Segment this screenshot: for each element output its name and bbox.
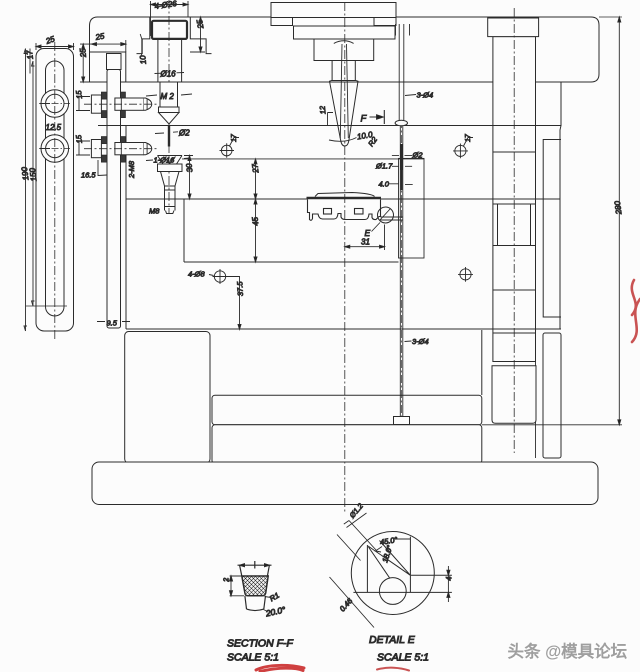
section FF left depth dim [230,576,244,596]
svg-text:150: 150 [28,167,39,182]
red swoosh bottom left [256,665,304,671]
detail E circle [378,207,394,223]
latch clamp 1 upper flange [101,92,125,99]
section FF top dim edge [238,564,272,566]
detail E d1.2 dim line [344,513,367,528]
dim 12 sprue tip [328,113,334,127]
return pin ball [395,120,407,126]
screw position crosshair 4 [460,269,471,280]
runner puller collar [158,164,183,172]
screw position crosshair 3 [214,271,225,282]
latch pin 1 centerline [84,103,159,105]
svg-text:45: 45 [250,216,260,226]
latch pin 1 band [120,98,122,110]
latch pin 2 band [120,143,122,155]
cavity plate line y199 [126,198,560,200]
guide bush hole 2 inner [46,139,64,157]
bar head split line [107,69,121,71]
pillar guide bush [492,366,536,424]
molded part top thick line [307,197,382,200]
latch dim 15 lower [76,141,90,155]
sprue spherical seat arc [334,41,354,44]
svg-text:头条 @模具论坛: 头条 @模具论坛 [508,641,628,661]
runner puller thread lines [165,190,176,207]
dim 37.5 leader and line [226,277,240,330]
svg-text:17: 17 [231,133,238,142]
pillar centerline [513,8,515,453]
svg-text:Ø2: Ø2 [412,151,424,160]
screw position crosshair 2 [455,145,466,156]
pillar bush chamfer band [493,361,536,363]
locating ring left foot [271,18,293,26]
M12 screw body [160,82,178,107]
left plate dim 12.5 [40,104,50,149]
svg-text:25: 25 [78,47,88,58]
svg-text:17: 17 [465,133,472,142]
molded part window 1 [324,209,332,215]
upper ejector retainer plate [212,395,482,425]
crosshair 2 flag [464,138,474,147]
crosshair 1 flag [230,138,240,147]
guide bush horizontal centerlines [39,104,70,149]
svg-text:12.5: 12.5 [46,123,62,132]
svg-text:12: 12 [318,105,328,115]
section FF 20 deg label [264,610,268,612]
sprue cone outer left [330,80,341,139]
red marks bottom center [377,668,409,671]
detail E 0.46 dim diagonal [330,577,375,628]
latch clamp 1 left block [91,95,101,113]
ejector pin T foot [394,417,410,425]
return pin counterbore [396,24,410,36]
ejector pin guide box [399,158,425,258]
guide bush hole 1 inner [46,94,64,112]
section FF top center tick [254,561,256,569]
sprue tip [341,140,350,147]
svg-text:17: 17 [25,49,35,59]
B plate bottom line [126,328,561,330]
cavity pocket floor line [184,261,399,263]
svg-text:10: 10 [138,54,148,64]
svg-text:4: 4 [444,576,453,581]
bottom clamp plate [92,462,598,505]
sprue bushing flange [294,26,396,39]
section FF R1 label [265,597,272,598]
bar bottom width label 9.5 [97,321,130,323]
detail E vertical line right [409,537,411,593]
dim 280 line [618,17,620,425]
cavity pocket left wall [183,199,185,262]
latch lock plate outline [36,49,74,332]
latch lock plate slot [46,61,65,316]
svg-text:M 2: M 2 [161,92,175,101]
dim 25 bolt head right arrows [199,17,202,52]
runner stripper plate [126,82,561,126]
dim 27-45 arrows [254,159,257,262]
M12 screw cone tip [159,113,180,125]
detail E pin taper lines [368,541,410,579]
screw position crosshair 1 [221,145,232,156]
svg-text:9.5: 9.5 [107,319,118,328]
latch clamp 2 left block [91,140,101,158]
svg-text:4-Ø8: 4-Ø8 [188,270,206,279]
latch pin 1 tip band [146,99,148,110]
core plate B [126,199,560,329]
right narrow strip edge [543,140,561,318]
svg-text:3-Ø4: 3-Ø4 [412,337,429,346]
dim 37.5 arrow [238,324,241,329]
svg-text:1-Ø16: 1-Ø16 [154,156,176,165]
ejector plate split extension line [482,424,622,426]
section FF lower walls [245,596,266,609]
dim 25 top pocket line [92,40,126,52]
locating ring body [271,3,396,18]
latch pin 2 body [115,143,144,155]
pillar inset ring [498,204,531,246]
detail E ext lines to d1.2 [337,521,377,561]
M12 screw collar [159,107,180,113]
svg-text:M8: M8 [149,207,160,216]
bolt centerline [168,0,170,213]
latch clamp 2 upper flange [101,137,125,144]
svg-text:SCALE 5:1: SCALE 5:1 [377,652,429,664]
svg-text:SCALE 5:1: SCALE 5:1 [227,652,279,664]
dim 27-45 line [182,159,424,262]
latch clamp 1 lower flange [101,111,125,118]
center ejector pin centerline [401,120,403,420]
latch clamp 2 lower flange [101,155,125,162]
detail E big circle [351,532,434,615]
svg-text:280: 280 [613,200,624,216]
svg-text:30: 30 [184,162,194,172]
sprue inner channel [340,44,348,138]
latch pin 2 tip band [146,143,148,154]
svg-text:Ø16: Ø16 [160,70,177,79]
gate bar [381,217,404,220]
svg-text:37.5: 37.5 [235,280,245,296]
dim 280 arrows [618,17,621,425]
latch pin 2 bullet tip [144,143,152,155]
right edge extension line y=17 [599,16,622,18]
section FF hatched seal section [242,576,268,596]
ejector pocket right edge [481,330,483,395]
guide bush hole 2 outer [41,135,69,163]
pillar band lines [493,126,536,334]
detail E upper right line [411,574,452,576]
sprue cone outer right [349,80,358,139]
svg-text:SECTION F-F: SECTION F-F [227,638,293,650]
svg-text:27: 27 [250,163,260,174]
dim 31 arrows [345,245,385,248]
shoulder bolt shaft [158,39,182,82]
dim 25 left vertical arrows [82,44,85,82]
guide pillar shaft [493,37,536,362]
top clamp plate counterbore pocket right [190,17,211,54]
center ejector pin thick gate section [400,144,403,170]
dia2 gate pin [168,126,170,147]
svg-text:2-M8: 2-M8 [127,160,136,179]
left plate dim 190 [24,49,27,332]
detail E horizontal base line [353,591,452,593]
mold centerline [344,2,346,513]
right spacer rail [543,333,561,458]
runner puller tip [166,211,175,214]
detail E circle gate slant [380,209,391,221]
svg-text:2: 2 [223,577,230,583]
left spacer block [125,332,210,464]
cavity plate A [126,126,561,200]
detail E small circle [379,578,406,605]
right spacer inner line [535,333,537,458]
left plate dim 25 top [36,43,74,50]
molded part window 2 [355,209,364,215]
section FF bottom curve [247,609,264,610]
latch pull bar shaft [107,70,121,329]
dim 25 top pocket arrows [92,43,126,46]
return pin upper rod [399,24,404,120]
runner puller funnel top [158,156,183,165]
latch pin 1 body [115,98,144,110]
label 3-d4 bottom with leader [405,340,412,343]
svg-text:4.0: 4.0 [379,180,390,189]
molded part body outline [308,200,381,221]
svg-text:DETAIL E: DETAIL E [369,634,416,646]
shoulder bolt head [152,21,187,39]
label 1-d16 ticks [146,158,190,161]
molded part dome [315,193,375,197]
dim 31 line [345,225,385,251]
latch pull bar head [107,54,122,70]
runner puller taper [161,172,180,211]
svg-text:Ø1.7: Ø1.7 [375,162,393,171]
top clamp plate [90,17,600,82]
left plate centerline [54,42,56,340]
latch pin 2 centerline [84,148,159,150]
left plate dim 150 [32,61,35,306]
detail E right dim 4 [447,566,449,602]
center ejector pin [400,126,403,417]
section FF upper side walls [240,565,270,576]
dim 30 arrows [188,156,191,200]
detail E vertical line left [366,545,368,592]
dim 10 bolt seat line [140,34,142,59]
locating ring right foot [374,18,396,26]
top clamp plate bolt-head pocket notch [90,52,126,82]
dim 30 line [184,156,193,200]
left plate slot extension line y306 [26,305,67,307]
guide bush hole 1 outer [41,90,69,118]
latch pin 1 bullet tip [144,98,152,110]
dim 25 left vertical line [80,44,95,82]
sprue bushing narrow column [332,61,355,81]
svg-text:16.5: 16.5 [81,171,96,180]
latch dim 15 upper [76,97,90,111]
label 3-d4 top with leader [405,95,416,96]
dim 25 bolt head right line [190,17,205,52]
sprue bushing neck [314,39,374,61]
svg-text:Ø2: Ø2 [178,129,190,138]
guide pillar head [488,18,539,37]
parting line across latch bar [98,125,127,127]
label 10.0 with leader [329,138,357,142]
svg-text:31: 31 [361,238,370,247]
dim 4-d26 arrows [151,3,189,6]
lower ejector plate [212,425,482,464]
left plate dim 17 [29,49,31,74]
top clamp plate counterbore pocket left [137,17,150,54]
bolt dia16 label ticks [155,73,185,74]
svg-text:3-Ø4: 3-Ø4 [417,91,434,100]
svg-text:E: E [365,228,371,238]
label d2 upper with ticks [155,132,178,134]
M12 label ticks [146,94,192,96]
dim 4-d26 line [151,1,189,36]
red scribble right edge [632,280,640,342]
